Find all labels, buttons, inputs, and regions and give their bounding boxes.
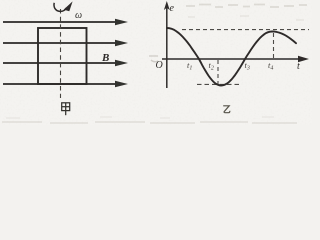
faint smudge near B / between figures	[149, 56, 158, 62]
field line 3	[3, 60, 128, 67]
jia label (drawn glyph)	[62, 103, 70, 115]
faint print bleed-through top right	[186, 5, 307, 21]
dashed vertical at t4	[273, 33, 275, 59]
field line 2	[3, 40, 128, 47]
rotation axis (dashed vertical)	[60, 9, 62, 98]
svg-text:ω: ω	[75, 10, 82, 21]
svg-text:t: t	[297, 61, 300, 72]
field line 4 (bottom)	[3, 81, 128, 88]
dashed peak level line	[182, 29, 309, 31]
coil rectangle	[38, 28, 87, 84]
scan grain noise	[0, 0, 312, 125]
yi label (drawn glyph)	[223, 106, 230, 113]
emf sine curve	[167, 28, 296, 86]
e axis (vertical)	[164, 1, 170, 88]
paper background	[0, 0, 312, 125]
dashed vertical at t2	[217, 60, 219, 85]
rotation curved arrow	[54, 1, 73, 11]
svg-text:B: B	[101, 52, 109, 64]
t axis (horizontal)	[162, 56, 309, 62]
svg-text:e: e	[170, 3, 175, 14]
field line 1 (top)	[3, 19, 128, 26]
svg-text:O: O	[156, 60, 163, 71]
dashed trough level line	[197, 83, 240, 85]
faint bleed-through bottom strip	[2, 117, 297, 123]
